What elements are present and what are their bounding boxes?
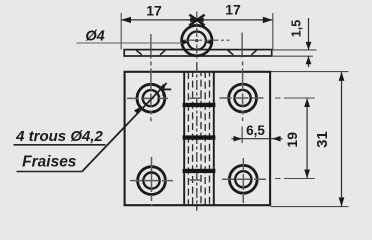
knuckle strip left edge bbox=[183, 72, 185, 205]
extension line left bbox=[120, 13, 122, 49]
Ø4 leader line bbox=[77, 42, 184, 44]
centerline dash across strip top row bbox=[190, 97, 203, 99]
hole top-right centerlines bbox=[220, 97, 266, 99]
19 arrow up bbox=[304, 98, 310, 107]
plate outline bbox=[124, 50, 272, 56]
hole bottom-left inner bbox=[143, 173, 159, 189]
svg-text:19: 19 bbox=[284, 132, 300, 148]
hole centerline tick right (top view) bbox=[241, 33, 243, 58]
leader end arrowhead bbox=[160, 83, 167, 91]
hidden line 2 bbox=[192, 72, 194, 205]
leader end vertical tick bbox=[162, 84, 164, 96]
svg-text:4 trous Ø4,2: 4 trous Ø4,2 bbox=[15, 128, 103, 145]
knuckle bar 3 bbox=[183, 169, 216, 173]
Ø4 arrow left (points right at pin hole) bbox=[182, 40, 189, 45]
arrows middle pair (hand-drawn crossed style) bbox=[189, 15, 204, 26]
6,5 arrow left-pointing bbox=[272, 136, 280, 142]
square plate outline bbox=[125, 72, 271, 205]
19 dim line bbox=[306, 99, 308, 178]
knuckle outer circle bbox=[182, 25, 212, 55]
hole bottom-right inner bbox=[235, 171, 251, 187]
knuckle bar 1 bbox=[183, 103, 216, 107]
svg-text:Ø4: Ø4 bbox=[85, 29, 104, 45]
leader line from labels to top-left hole bbox=[82, 83, 166, 171]
countersink V left hole bbox=[136, 50, 165, 55]
hidden line 3 bbox=[200, 72, 202, 205]
hole top-left inner bbox=[143, 90, 159, 106]
hole top-left centerlines bbox=[127, 97, 170, 99]
hole bottom-right centerlines bbox=[222, 178, 266, 180]
hole bottom-right outer bbox=[229, 165, 257, 193]
6,5 extension segment (hole axis) bbox=[241, 127, 243, 144]
svg-text:31: 31 bbox=[314, 131, 331, 148]
svg-text:6,5: 6,5 bbox=[246, 123, 265, 138]
31 dim line bbox=[341, 72, 343, 206]
extension line right bbox=[272, 13, 274, 49]
19 extension bottom bbox=[275, 178, 315, 180]
1,5 extension top bbox=[272, 49, 317, 51]
svg-text:Fraises: Fraises bbox=[22, 154, 77, 171]
svg-text:17: 17 bbox=[146, 3, 162, 19]
dimension line 17/17 bbox=[121, 19, 272, 21]
19 arrow down bbox=[304, 170, 310, 179]
hole top-right inner bbox=[235, 90, 251, 106]
leader arrowhead at hole bbox=[134, 107, 141, 115]
hole centerline tick left (top view) bbox=[150, 34, 152, 59]
hole bottom-left centerlines bbox=[130, 180, 173, 182]
knuckle inner circle (pin hole) bbox=[188, 31, 206, 49]
1,5 arrow down bbox=[306, 42, 312, 50]
knuckle strip right edge bbox=[213, 72, 215, 205]
1,5 dim vertical upper bbox=[308, 18, 310, 50]
hidden line 5 bbox=[209, 72, 211, 205]
hole bottom-left outer bbox=[138, 167, 166, 195]
knuckle bar 2 bbox=[183, 135, 216, 139]
label underline 2 bbox=[17, 171, 83, 173]
Ø4 arrow right (points left at pin hole) bbox=[205, 40, 212, 45]
svg-text:17: 17 bbox=[225, 2, 241, 18]
svg-text:1,5: 1,5 bbox=[290, 20, 304, 37]
hidden line 4 bbox=[204, 72, 206, 205]
arrow left end bbox=[121, 17, 131, 23]
hole top-right outer bbox=[229, 84, 257, 112]
1,5 extension bottom bbox=[272, 55, 313, 57]
6,5 dim line bbox=[232, 138, 283, 140]
arrow right end bbox=[263, 17, 273, 23]
hole top-left outer bbox=[137, 84, 165, 112]
countersink V right hole bbox=[228, 50, 257, 55]
1,5 arrow up bbox=[306, 56, 312, 64]
leader end horizontal tick bbox=[160, 88, 171, 90]
knuckle center dot bbox=[195, 39, 198, 42]
label underline 1 bbox=[14, 144, 106, 146]
6,5 arrow right-pointing bbox=[234, 136, 242, 142]
knuckle vertical centerline bbox=[196, 12, 198, 61]
knuckle horizontal centerline bbox=[183, 39, 230, 41]
31 extension top bbox=[271, 71, 349, 73]
centerline dash across strip bottom row bbox=[190, 179, 203, 181]
31 arrow down bbox=[339, 197, 345, 206]
strip centerline (hinge axis) bbox=[196, 62, 198, 211]
hidden line 1 bbox=[187, 72, 189, 205]
31 extension bottom bbox=[271, 206, 349, 208]
19 extension top bbox=[275, 97, 315, 99]
31 arrow up bbox=[339, 72, 345, 81]
1,5 dim vertical lower bbox=[308, 56, 310, 67]
